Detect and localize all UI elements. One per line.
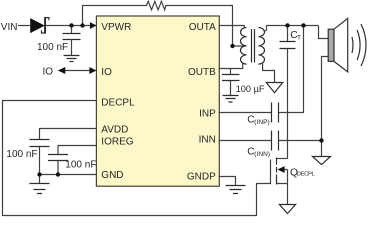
svg-text:(INP): (INP) <box>254 119 269 126</box>
svg-text:INP: INP <box>199 108 216 119</box>
svg-text:DECPL: DECPL <box>101 97 135 108</box>
svg-text:INN: INN <box>199 135 216 146</box>
svg-text:AVDD: AVDD <box>101 124 128 135</box>
svg-text:VPWR: VPWR <box>101 22 131 33</box>
svg-text:T: T <box>297 35 301 42</box>
svg-text:100 µF: 100 µF <box>236 84 265 94</box>
svg-text:VIN: VIN <box>1 22 18 33</box>
svg-text:IO: IO <box>43 67 54 78</box>
svg-text:IO: IO <box>101 67 112 78</box>
svg-text:GNDP: GNDP <box>187 171 216 182</box>
svg-text:(INN): (INN) <box>254 151 270 158</box>
svg-text:100 nF: 100 nF <box>65 160 96 171</box>
svg-text:GND: GND <box>101 170 123 181</box>
svg-text:OUTA: OUTA <box>189 22 216 33</box>
svg-text:100 nF: 100 nF <box>37 42 68 53</box>
svg-text:OUTB: OUTB <box>188 67 216 78</box>
svg-text:DECPL: DECPL <box>297 172 316 178</box>
svg-text:IOREG: IOREG <box>101 136 133 147</box>
svg-text:100 nF: 100 nF <box>6 149 37 160</box>
